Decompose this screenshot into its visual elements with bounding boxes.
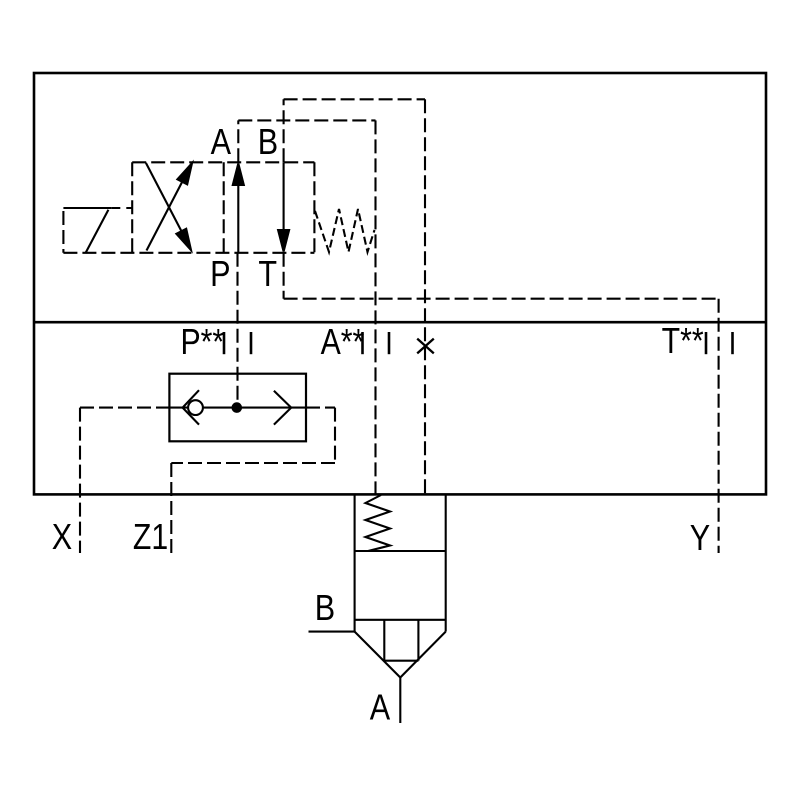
orifice marks T [705,332,708,354]
svg-text:A**: A** [321,323,365,363]
drain line T down to port Y [718,299,720,553]
drain line T horizontal [284,298,719,300]
cartridge poppet inner bottom [384,660,418,662]
svg-text:A: A [370,688,391,728]
pilot line B horizontal [284,98,425,100]
check valve seat [183,390,199,407]
svg-text:X: X [52,518,72,558]
cartridge piston line [355,619,446,621]
svg-text:B: B [315,589,335,629]
svg-text:Y: Y [690,519,710,559]
check valve box [169,374,306,442]
cartridge poppet inner left [383,620,385,661]
cartridge sleeve right [445,494,447,632]
svg-text:P**: P** [181,323,225,363]
cartridge sleeve left [354,494,356,632]
pilot valve spring [315,209,375,252]
port A line [399,678,401,724]
check valve flow arrow [274,391,291,425]
line Z1 from check valve to port Z1 [171,408,335,553]
cartridge poppet inner right [417,620,419,661]
check valve axis line [169,407,306,409]
pilot line P down to check valve [236,253,238,408]
junction dot [232,402,243,413]
drain line T down from valve [283,253,285,299]
port B line [309,631,355,633]
svg-text:B: B [258,123,278,163]
check valve ball [188,400,203,415]
pilot valve 4/2 body [63,162,314,253]
orifice marks A [361,332,364,354]
arrow B to T [283,162,285,245]
solenoid a [63,208,111,253]
crossed arrow up-right [147,175,187,251]
cartridge poppet right diagonal [400,632,445,678]
svg-text:A: A [211,123,232,163]
wire solenoid to valve [111,207,132,209]
cartridge poppet left diagonal [355,632,401,678]
arrow P to A [237,170,239,253]
pilot line A vertical stub above valve [237,120,239,162]
block divider line [34,321,766,324]
manifold block outline [34,73,766,494]
orifice marks P [223,332,226,354]
svg-text:T**: T** [662,322,704,362]
svg-text:Z1: Z1 [133,518,168,558]
svg-text:T: T [258,255,277,295]
svg-text:P: P [210,255,230,295]
cartridge spring [366,495,391,551]
crossed arrow down-right [146,163,185,238]
pilot line B vertical stub above valve [283,99,285,162]
pilot line A horizontal [238,119,375,121]
plugged port symbol on line B [417,339,434,354]
pilot line A down to cartridge spring [374,120,376,494]
line X from check valve to port X [80,408,169,553]
pilot line B down to block bottom [424,99,426,494]
cartridge spring chamber bottom [355,550,446,552]
